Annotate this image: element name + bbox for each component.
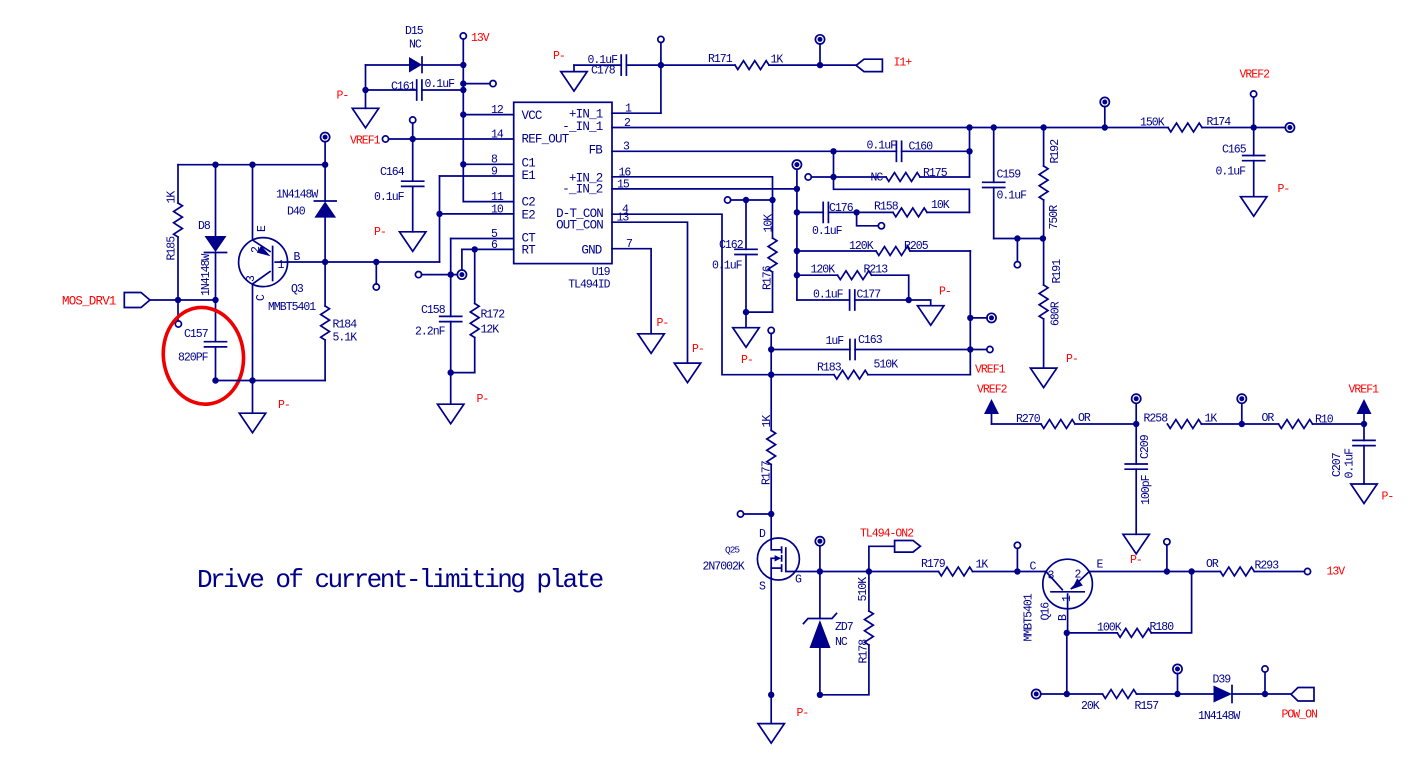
diode D39 1N4148W (1214, 686, 1233, 703)
svg-text:C178: C178 (591, 65, 616, 78)
svg-text:680R: 680R (1050, 301, 1063, 326)
svg-text:MMBT5401: MMBT5401 (268, 301, 316, 314)
svg-text:Q25: Q25 (725, 545, 740, 556)
transistor Q3 MMBT5401 (239, 238, 288, 287)
svg-text:FB: FB (589, 144, 604, 158)
svg-text:D8: D8 (198, 220, 211, 233)
svg-text:C176: C176 (829, 202, 854, 215)
resistor R205 120K (797, 250, 876, 252)
resistor R180 100K (1067, 632, 1118, 634)
resistor R183 510K (771, 374, 834, 376)
svg-text:R179: R179 (921, 558, 946, 571)
wire -IN_1 to R175 right (969, 128, 971, 178)
connector POW_ON (1291, 688, 1314, 702)
svg-text:D15: D15 (405, 25, 424, 38)
svg-text:12: 12 (491, 104, 504, 117)
wire Q16 base vertical (1066, 633, 1068, 694)
resistor R184 (324, 262, 326, 306)
svg-text:REF_OUT: REF_OUT (522, 133, 570, 147)
svg-text:I1+: I1+ (894, 57, 913, 70)
svg-text:510K: 510K (857, 577, 870, 602)
wire Q25 gate row (795, 571, 939, 573)
capacitor C163 1uF (771, 349, 850, 351)
svg-text:G: G (795, 574, 802, 587)
svg-text:13V: 13V (1327, 566, 1346, 579)
pin 9 wire E1 (440, 175, 514, 177)
svg-text:0.1uF: 0.1uF (997, 190, 1028, 203)
svg-text:1K: 1K (976, 559, 989, 572)
svg-text:R171: R171 (708, 53, 733, 66)
svg-text:3: 3 (245, 275, 258, 282)
svg-text:OUT_CON: OUT_CON (556, 219, 603, 233)
zener diode ZD7 NC (819, 572, 821, 619)
resistor R174 150K (1168, 123, 1202, 132)
svg-text:P-: P- (374, 226, 386, 239)
resistor R177 1K (770, 429, 772, 432)
svg-text:E: E (1097, 559, 1104, 572)
svg-text:C209: C209 (1139, 434, 1152, 459)
svg-text:MMBT5401: MMBT5401 (1023, 593, 1036, 641)
svg-text:R175: R175 (923, 167, 948, 180)
svg-text:P-: P- (477, 393, 489, 406)
svg-text:VCC: VCC (522, 109, 542, 123)
svg-text:13V: 13V (471, 32, 490, 45)
ground P- below R191 (1030, 368, 1056, 388)
wire C159 bottom to R192 bottom (994, 238, 1044, 240)
svg-text:1N4148W: 1N4148W (1198, 710, 1240, 723)
capacitor C159 0.1uF (993, 128, 995, 183)
terminal below R185 (177, 300, 179, 321)
svg-text:-_IN_2: -_IN_2 (562, 183, 603, 197)
capacitor C162 0.1uF (745, 200, 747, 249)
svg-text:1N4148W: 1N4148W (276, 189, 318, 202)
svg-text:S: S (759, 581, 766, 594)
op-amp U19 TL494ID box (514, 102, 612, 263)
svg-text:NC: NC (871, 172, 884, 185)
svg-text:TL494ID: TL494ID (568, 279, 610, 292)
terminal left of Q25 drain (737, 511, 743, 517)
ground P- below C162 (733, 328, 759, 348)
ground P- pin13 (674, 363, 700, 383)
svg-text:C161: C161 (391, 81, 416, 94)
terminal 13V right (1304, 568, 1310, 574)
pin 1 wire +IN_1 (612, 112, 661, 114)
terminal above POW_ON (1264, 672, 1266, 694)
pin 11 wire C2 (463, 201, 513, 203)
svg-text:P-: P- (1382, 491, 1394, 504)
svg-text:C164: C164 (380, 166, 405, 179)
svg-text:R183: R183 (817, 362, 842, 375)
svg-text:C163: C163 (858, 334, 883, 347)
svg-text:P-: P- (1066, 353, 1078, 366)
resistor R175 NC (805, 174, 811, 180)
svg-text:Q16: Q16 (1040, 602, 1053, 621)
svg-text:15: 15 (617, 179, 630, 192)
ground P- left of C178 (573, 65, 575, 72)
svg-text:0.1uF: 0.1uF (1216, 166, 1247, 179)
svg-text:R180: R180 (1150, 621, 1175, 634)
terminal below base row (375, 262, 377, 284)
svg-text:NC: NC (409, 39, 422, 52)
svg-text:C157: C157 (184, 328, 208, 341)
transistor Q16 MMBT5401 (1043, 559, 1093, 609)
resistor R176 10K (772, 200, 774, 238)
svg-text:VREF1: VREF1 (350, 135, 381, 148)
svg-text:C2: C2 (522, 196, 536, 210)
svg-text:R191: R191 (1051, 259, 1064, 284)
wire bottom POW_ON row (1041, 693, 1103, 695)
svg-text:2N7002K: 2N7002K (703, 561, 745, 574)
svg-text:0.1uF: 0.1uF (425, 78, 456, 91)
svg-text:E: E (256, 225, 269, 232)
diode D8 (215, 165, 217, 236)
svg-text:510K: 510K (874, 359, 899, 372)
node bullseye above C209 (1135, 403, 1137, 424)
pin 7 wire GND (612, 249, 651, 334)
svg-text:5.1K: 5.1K (333, 332, 358, 345)
wire Q16 emitter row (1089, 571, 1220, 573)
connector TL494-ON2 (869, 546, 895, 571)
terminal above C164 (412, 123, 414, 139)
node bullseye above ZD7 (819, 546, 821, 572)
pin 3 wire FB (612, 150, 896, 152)
wire MOS_DRV1 row (150, 299, 216, 301)
capacitor C160 0.1uF (896, 141, 901, 161)
svg-text:P-: P- (939, 286, 951, 299)
capacitor C157 820PF (215, 300, 217, 341)
svg-text:C207: C207 (1331, 453, 1344, 477)
svg-text:P-: P- (1130, 554, 1142, 567)
pin 12 wire VCC (463, 114, 513, 116)
resistor R192 750R (1043, 128, 1045, 167)
terminal below C159 row (1016, 239, 1018, 262)
diode D15 NC (366, 64, 410, 66)
svg-text:P-: P- (278, 399, 290, 412)
svg-text:C177: C177 (857, 289, 881, 302)
svg-text:RT: RT (522, 244, 537, 258)
svg-text:0.1uF: 0.1uF (867, 140, 898, 153)
svg-text:R213: R213 (864, 264, 889, 277)
ground P- below C209 (1123, 534, 1149, 554)
svg-text:1K: 1K (761, 415, 774, 428)
svg-text:12K: 12K (481, 324, 500, 337)
resistor R270 0R (992, 423, 1042, 425)
ground P- below Q3 (252, 381, 254, 414)
svg-text:1K: 1K (1205, 413, 1218, 426)
svg-text:820PF: 820PF (178, 352, 209, 365)
svg-text:1N4148W: 1N4148W (200, 254, 213, 296)
node I1+ bullseye (817, 62, 823, 68)
terminal above emitter row (1166, 545, 1168, 572)
pin 5 wire CT (451, 238, 514, 240)
terminal 13V (460, 33, 466, 39)
svg-text:D39: D39 (1213, 674, 1232, 687)
svg-text:R258: R258 (1144, 413, 1169, 426)
capacitor C209 100pF (1135, 424, 1137, 464)
svg-text:OR: OR (1078, 412, 1091, 425)
terminal above R179 right (1016, 548, 1018, 571)
pin 13 wire OUT_CON (612, 222, 688, 363)
wire vertical +IN2 tie (796, 169, 798, 300)
svg-text:10: 10 (491, 204, 504, 217)
svg-text:VREF2: VREF2 (977, 384, 1008, 397)
wire top rail R185/D8/Q3e/D40 (178, 164, 325, 166)
pin 6 wire RT (462, 248, 514, 250)
node VREF2 arrow (984, 399, 999, 414)
transistor Q25 2N7002K (770, 514, 772, 540)
svg-text:0.1uF: 0.1uF (374, 191, 405, 204)
resistor R158 10K (857, 211, 893, 213)
svg-text:E1: E1 (522, 169, 536, 183)
svg-text:0.1uF: 0.1uF (812, 225, 843, 238)
resistor R191 680R (1043, 239, 1045, 286)
svg-text:R293: R293 (1255, 560, 1280, 573)
svg-text:2.2nF: 2.2nF (415, 326, 446, 339)
resistor R157 20K (1103, 690, 1137, 699)
wire C162/R176 row (725, 197, 731, 203)
svg-text:7: 7 (626, 238, 632, 251)
svg-text:1K: 1K (771, 54, 784, 67)
svg-text:R174: R174 (1207, 116, 1232, 129)
capacitor C164 0.1uF (412, 139, 414, 181)
svg-text:P-: P- (1278, 183, 1290, 196)
svg-text:11: 11 (491, 191, 504, 204)
svg-text:E2: E2 (522, 209, 536, 223)
ground P- below C164 (400, 232, 426, 252)
svg-text:GND: GND (581, 244, 601, 258)
wire 13V rail (462, 39, 464, 202)
resistor R185 (177, 165, 179, 203)
svg-text:P-: P- (797, 707, 809, 720)
svg-text:VREF1: VREF1 (975, 364, 1006, 377)
svg-text:120K: 120K (849, 240, 874, 253)
svg-text:1K: 1K (166, 191, 179, 204)
terminal VREF2 top right (1251, 91, 1257, 97)
svg-text:R177: R177 (761, 461, 774, 485)
node VREF2 bullseye above D40 (321, 133, 330, 142)
svg-text:VREF1: VREF1 (1349, 384, 1380, 397)
wire R205 right vertical (969, 251, 971, 375)
capacitor C177 0.1uF (797, 299, 850, 301)
svg-text:1: 1 (278, 259, 285, 272)
svg-text:NC: NC (835, 636, 848, 649)
resistor R178 510K (868, 572, 870, 612)
wire R175 tie to R158 right (834, 177, 970, 212)
terminal below C176 (857, 212, 879, 225)
resistor R293 0R (1220, 567, 1254, 576)
svg-text:P-: P- (337, 90, 349, 103)
pin 2 wire -IN_1 rail (612, 127, 1168, 129)
connector I1+ (856, 59, 882, 71)
ground P- below C158 (438, 404, 464, 424)
resistor R258 1K (1167, 420, 1201, 429)
svg-text:Q3: Q3 (291, 283, 304, 296)
svg-text:OR: OR (1262, 412, 1275, 425)
terminal stub right of 13V rail (463, 83, 490, 85)
svg-text:150K: 150K (1140, 117, 1165, 130)
svg-text:VREF2: VREF2 (1240, 69, 1271, 82)
svg-text:14: 14 (491, 129, 504, 142)
svg-text:20K: 20K (1081, 700, 1100, 713)
terminal VREF1 right of C163 (970, 349, 987, 351)
svg-text:P-: P- (657, 317, 669, 330)
ground P- pin7 (638, 334, 664, 354)
pin 16 wire +IN_2 (612, 177, 773, 200)
wire R174 to bullseye (1254, 127, 1286, 129)
svg-text:POW_ON: POW_ON (1282, 709, 1318, 722)
svg-text:R178: R178 (858, 639, 871, 664)
svg-text:U19: U19 (592, 266, 611, 279)
svg-text:120K: 120K (811, 264, 836, 277)
svg-text:P-: P- (741, 354, 753, 367)
wire bottom row left (216, 380, 326, 382)
ground P- below Q25 (770, 695, 772, 724)
wire R213 right leg (908, 275, 910, 300)
capacitor C161 0.1uF (365, 65, 367, 90)
pin 10 wire E2 (439, 176, 441, 262)
wire Q3 base row (288, 261, 440, 263)
terminal above C178/R171 junction (658, 62, 664, 68)
pin 14 wire REF_OUT (382, 136, 388, 142)
svg-text:0.1uF: 0.1uF (712, 260, 743, 273)
svg-text:ZD7: ZD7 (835, 621, 853, 634)
svg-text:R158: R158 (874, 201, 899, 214)
capacitor C158 2.2nF (450, 239, 452, 317)
svg-text:C: C (255, 294, 268, 301)
node bullseye above pin2 rail (1104, 107, 1106, 128)
capacitor C176 0.1uF (797, 211, 823, 213)
svg-text:R176: R176 (762, 265, 775, 290)
resistor R171 1K (661, 64, 735, 66)
pin 15 wire -IN_2 (612, 188, 797, 190)
capacitor C207 0.1uF (1363, 424, 1365, 440)
svg-text:OR: OR (1206, 558, 1219, 571)
svg-text:R172: R172 (481, 309, 506, 322)
ground P- right of C177 (909, 300, 931, 306)
pin 8 wire C1 (463, 163, 513, 165)
junction dots top rail (212, 162, 218, 168)
node VREF1 bullseye stub (970, 317, 987, 319)
svg-text:0.1uF: 0.1uF (1344, 448, 1357, 479)
svg-text:C165: C165 (1222, 144, 1247, 157)
node RT bullseye (461, 249, 463, 270)
svg-text:C160: C160 (909, 141, 934, 154)
node VREF1 arrow right (1357, 399, 1372, 414)
terminal left of CT (415, 272, 421, 278)
svg-text:R185: R185 (166, 236, 179, 261)
svg-text:D: D (759, 528, 766, 541)
svg-text:750R: 750R (1048, 205, 1061, 230)
node bullseye left of 20K (1032, 689, 1041, 698)
svg-text:1uF: 1uF (826, 335, 845, 348)
svg-text:R157: R157 (1135, 700, 1159, 713)
resistor R172 12K (474, 249, 476, 303)
capacitor C165 0.1uF (1253, 128, 1255, 156)
svg-text:R184: R184 (333, 319, 358, 332)
svg-text:P-: P- (553, 50, 565, 63)
resistor R10 0R (1242, 423, 1279, 425)
svg-text:10K: 10K (931, 199, 950, 212)
node bullseye above R258/R10 (1241, 403, 1243, 424)
capacitor C178 0.1uF (574, 64, 621, 66)
svg-text:R270: R270 (1016, 413, 1041, 426)
svg-text:R10: R10 (1315, 414, 1334, 427)
red marking ellipse around C157 (158, 303, 249, 409)
svg-text:P-: P- (692, 343, 704, 356)
svg-text:0.1uF: 0.1uF (813, 289, 844, 302)
svg-text:R205: R205 (904, 240, 929, 253)
pin 4 wire D-T_CON (612, 214, 771, 375)
svg-text:TL494-ON2: TL494-ON2 (860, 528, 914, 541)
ground P- left of C161 (365, 90, 367, 108)
terminal above C163 left (768, 327, 774, 333)
svg-text:100K: 100K (1097, 622, 1122, 635)
ground P- below C207 (1351, 484, 1377, 504)
svg-text:C158: C158 (421, 304, 446, 317)
svg-text:R192: R192 (1049, 139, 1062, 164)
svg-text:Drive of current-limiting plat: Drive of current-limiting plate (197, 565, 603, 595)
svg-text:MOS_DRV1: MOS_DRV1 (62, 295, 116, 309)
svg-text:100pF: 100pF (1140, 474, 1153, 505)
svg-text:10K: 10K (763, 214, 776, 233)
node bullseye above +IN2 tie (792, 160, 801, 169)
resistor R179 1K (939, 567, 973, 576)
svg-text:-_IN_1: -_IN_1 (562, 120, 603, 134)
wire FB to R175 tie (833, 151, 835, 177)
wire C163 left vertical (770, 350, 772, 431)
node bullseye above R157 right (1177, 674, 1179, 694)
resistor R213 120K (797, 274, 838, 276)
svg-text:D40: D40 (287, 206, 306, 219)
svg-text:13: 13 (617, 212, 630, 225)
ground P- below C165 (1241, 197, 1267, 217)
diode D40 (324, 142, 326, 201)
wire Q25 source row (768, 692, 774, 698)
connector MOS_DRV1 (124, 293, 150, 308)
svg-text:C159: C159 (997, 169, 1022, 182)
